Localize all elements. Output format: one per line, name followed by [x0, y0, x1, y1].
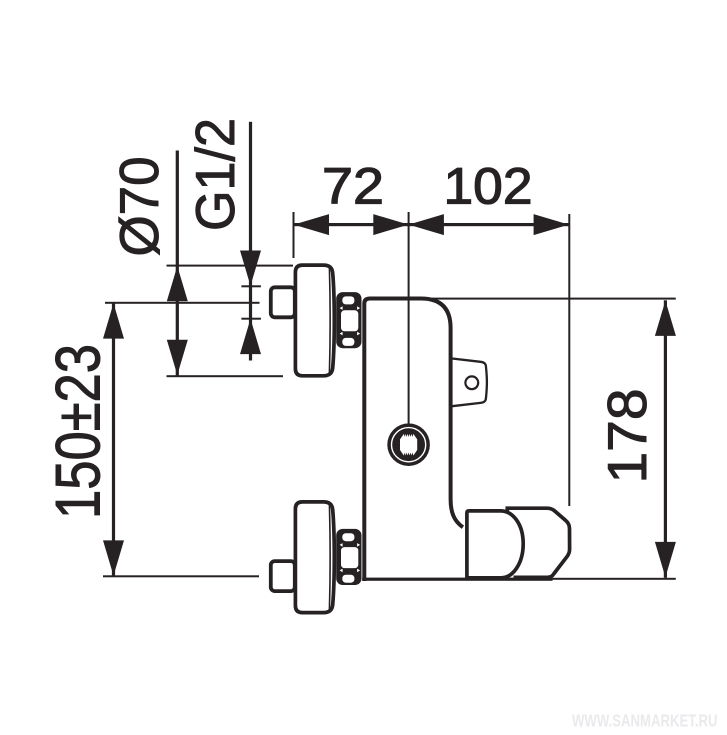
G1/2 bottom tick	[241, 318, 261, 320]
178 arrow down	[655, 542, 676, 577]
body bottom line	[362, 578, 552, 581]
arrow left tip of 72	[294, 214, 329, 235]
dimension line 72/102 horizontal	[294, 223, 570, 226]
top wall nipple G1/2	[271, 287, 295, 317]
svg-text:Ø70: Ø70	[108, 157, 170, 257]
G1/2 arrow up (below)	[240, 319, 261, 354]
cartridge spline hexagon with teeth	[400, 434, 417, 456]
178 top extension line	[424, 298, 676, 300]
svg-text:G1/2: G1/2	[184, 118, 246, 231]
Ø70 arrow down	[167, 340, 188, 375]
witness line right of 102	[568, 214, 570, 506]
150±23 top extension line	[105, 302, 260, 304]
svg-text:WWW.SANMARKET.RU: WWW.SANMARKET.RU	[572, 711, 718, 731]
178 dimension line	[664, 300, 667, 578]
bottom wall nipple G1/2	[271, 561, 295, 591]
G1/2 vertical dimension line	[249, 122, 252, 361]
G1/2 arrow down (above)	[240, 251, 261, 286]
svg-text:102: 102	[444, 157, 533, 214]
cartridge hole inner white ring	[392, 428, 426, 462]
150±23 bottom extension line	[103, 575, 259, 577]
svg-text:150±23: 150±23	[44, 344, 114, 519]
top escutcheon face line	[328, 268, 331, 374]
arrow right tip of 72 at centerline	[373, 214, 408, 235]
G1/2 top tick	[241, 285, 261, 287]
Ø70 arrow up	[167, 266, 188, 301]
bracket hole	[465, 376, 478, 389]
top connection nut	[336, 292, 361, 348]
shower-hose bracket	[451, 358, 487, 406]
handle neck escutcheon	[467, 511, 523, 578]
Ø70 bottom tick	[167, 375, 284, 377]
178 arrow up	[655, 301, 676, 336]
Ø70 top tick	[167, 265, 294, 267]
centre line through body to cartridge hole	[408, 212, 410, 424]
handle knob	[507, 508, 569, 577]
bottom escutcheon face line	[328, 504, 331, 610]
Ø70 vertical dimension line	[176, 151, 179, 376]
svg-text:72: 72	[322, 157, 384, 214]
bottom escutcheon	[295, 502, 334, 613]
150±23 arrow up	[103, 303, 124, 338]
cartridge hole black disc	[387, 423, 430, 466]
bottom connection nut	[336, 529, 361, 585]
150±23 arrow down	[103, 540, 124, 575]
svg-text:178: 178	[596, 389, 658, 484]
150±23 dimension line	[112, 303, 115, 576]
arrow left tip of 102 at centerline	[409, 214, 444, 235]
178 bottom extension line	[552, 578, 676, 580]
witness line left of 72	[293, 212, 295, 258]
arrow right tip of 102	[534, 214, 569, 235]
top escutcheon	[295, 265, 334, 376]
faucet body outline	[364, 299, 463, 582]
